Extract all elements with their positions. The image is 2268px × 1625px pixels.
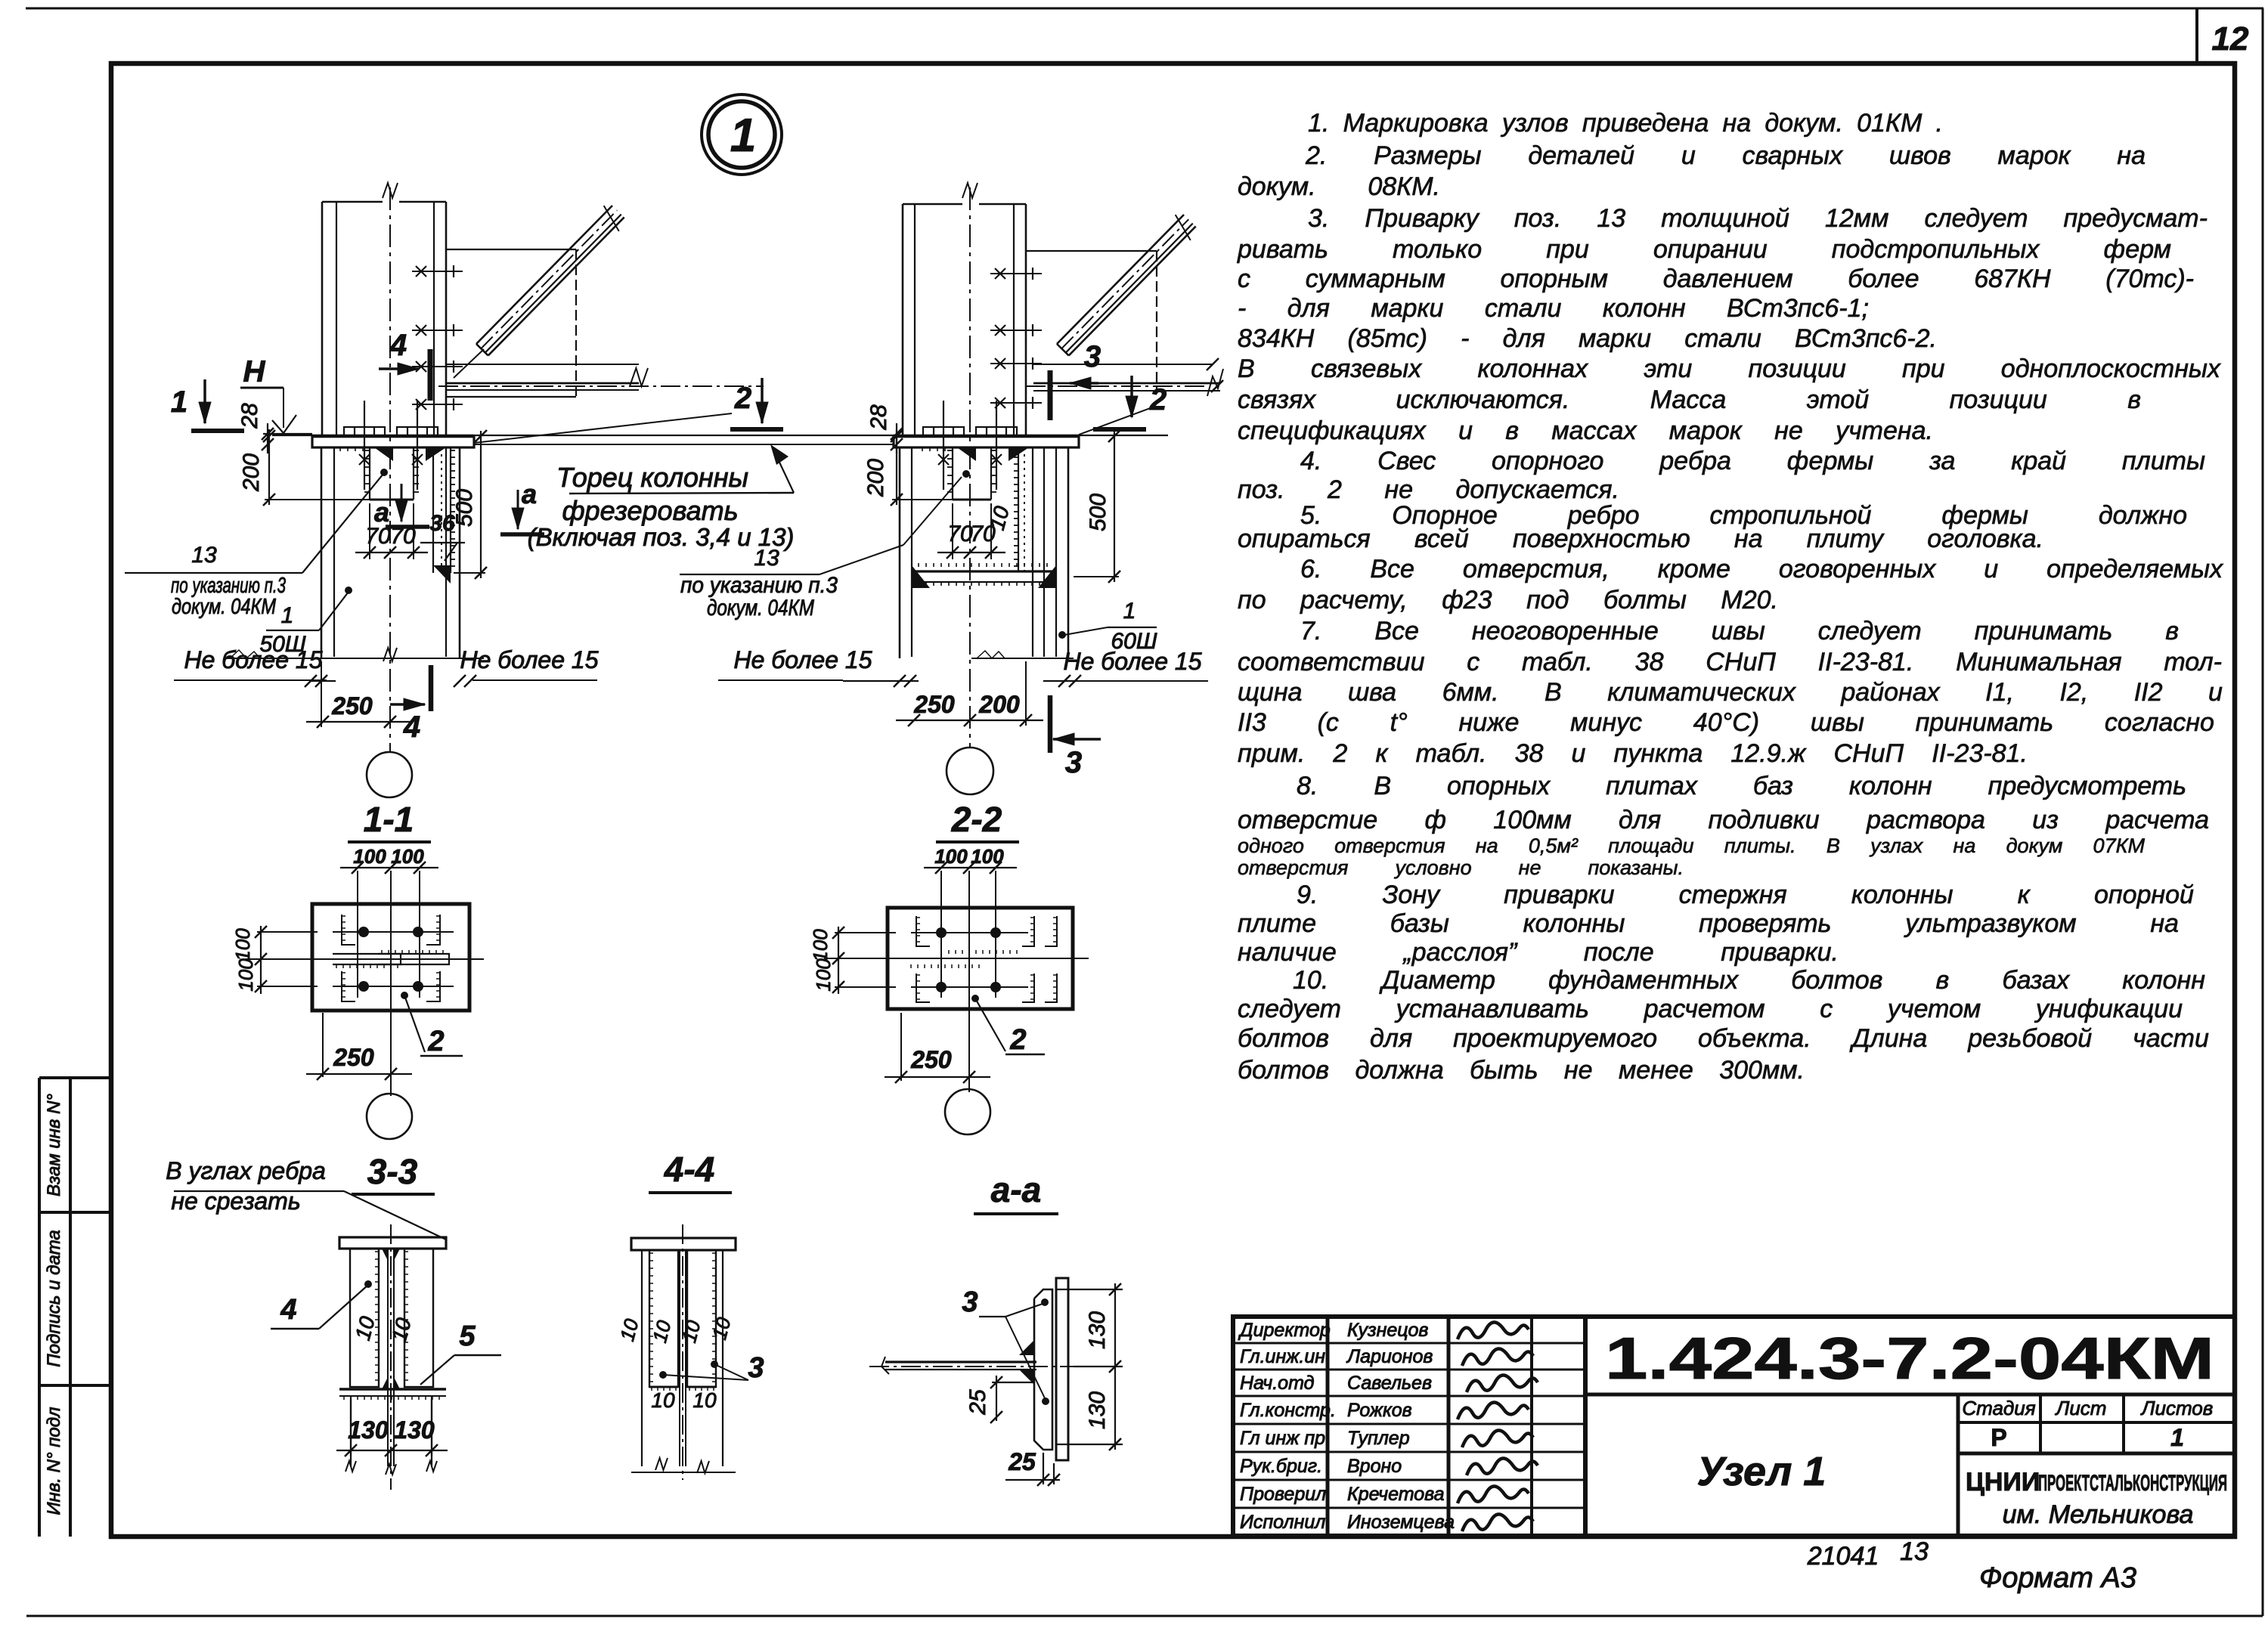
left detail bottom break line	[227, 658, 348, 659]
right detail lower column outer flange	[1055, 447, 1057, 657]
section 2-2 dim 100 100 top	[940, 871, 942, 911]
section 3-3 right rib	[404, 1249, 433, 1387]
svg-text:Гл.инж.ин: Гл.инж.ин	[1240, 1346, 1325, 1367]
svg-text:500: 500	[452, 489, 477, 527]
svg-text:а-а: а-а	[991, 1170, 1041, 1209]
section 2-2 anchor bolts	[936, 927, 947, 938]
svg-text:1: 1	[730, 110, 756, 162]
right detail bolt marks on column flange	[990, 273, 1042, 274]
svg-text:3: 3	[748, 1352, 764, 1384]
sheet outer bottom line	[26, 1615, 2263, 1617]
section a-a dim 130 130 right	[1057, 1289, 1123, 1290]
svg-text:Взам инв N°: Взам инв N°	[44, 1094, 64, 1196]
left detail stiffener slot	[369, 447, 370, 500]
uzel cell divider vertical	[1957, 1394, 1960, 1536]
node marker circle 1	[702, 94, 782, 175]
svg-text:13: 13	[754, 546, 779, 571]
section 3-3 top flange plate	[339, 1237, 446, 1249]
svg-text:28: 28	[866, 404, 891, 431]
title row line 6	[1233, 1479, 1585, 1481]
svg-text:1-1: 1-1	[364, 800, 414, 839]
left detail node circle	[367, 752, 412, 797]
section 3-3 weld triangles at web top	[382, 1249, 388, 1261]
svg-text:Туплер: Туплер	[1347, 1428, 1410, 1449]
svg-text:а: а	[374, 497, 389, 528]
svg-text:200: 200	[978, 691, 1020, 718]
svg-text:13: 13	[1900, 1537, 1929, 1566]
section 3-3 dim 130 130	[350, 1400, 352, 1456]
left detail web weld dotted band	[432, 447, 434, 573]
svg-text:Ларионов: Ларионов	[1346, 1346, 1433, 1367]
left detail dim 500	[480, 431, 482, 578]
section 3-3 left rib	[350, 1249, 379, 1387]
svg-text:В углах ребра: В углах ребра	[166, 1157, 326, 1184]
right detail truss bottom chord	[1033, 364, 1213, 365]
svg-text:100: 100	[809, 929, 832, 962]
svg-text:1: 1	[171, 385, 187, 419]
sheet outer right line	[2262, 8, 2264, 1616]
left detail dim 70 70	[369, 503, 370, 559]
svg-text:Не более 15: Не более 15	[1063, 648, 1201, 675]
section 1-1 dim 100 100 top	[357, 871, 358, 907]
svg-text:фрезеровать: фрезеровать	[562, 495, 738, 526]
svg-text:Не более 15: Не более 15	[460, 646, 598, 673]
svg-text:Инв. N° подл: Инв. N° подл	[44, 1407, 64, 1515]
svg-text:Узел 1: Узел 1	[1697, 1449, 1826, 1494]
svg-text:100: 100	[812, 958, 835, 992]
svg-text:4: 4	[403, 710, 420, 744]
section 2-2 label 2 leader	[971, 995, 979, 1002]
svg-text:10: 10	[615, 1316, 643, 1343]
svg-text:36: 36	[429, 511, 455, 536]
section 4-4 left rib	[649, 1250, 678, 1387]
left detail upper column top cap	[322, 201, 383, 203]
signature squiggles	[1458, 1322, 1529, 1339]
title row line 3	[1233, 1395, 1585, 1397]
section 2-2 centerlines	[824, 958, 1089, 959]
stadia list listov header lines	[1958, 1421, 2235, 1424]
left strip outer line	[38, 1078, 41, 1537]
svg-text:1: 1	[281, 603, 294, 628]
right detail gusset plate	[1026, 250, 1157, 252]
section 2-2 center hatch marks	[948, 950, 950, 954]
left detail dim 200	[268, 429, 270, 505]
section 1-1 weld channel symbols right	[426, 915, 440, 945]
svg-text:100: 100	[234, 958, 257, 992]
left detail lower column right flange	[445, 447, 447, 657]
section a-a flange strip	[1056, 1278, 1068, 1460]
left detail dim 28	[267, 423, 268, 453]
section 1-1 lower circle	[367, 1094, 412, 1139]
right detail lower column left flange	[899, 447, 901, 658]
svg-text:а: а	[522, 478, 537, 509]
torec note leader arrow	[776, 454, 794, 493]
right detail dim 500	[1114, 431, 1115, 582]
left strip cell divider 1	[39, 1211, 111, 1214]
svg-text:130: 130	[1085, 1391, 1110, 1429]
svg-text:2: 2	[1009, 1024, 1026, 1056]
left strip inner divider	[69, 1078, 72, 1537]
svg-text:3: 3	[1065, 746, 1082, 779]
title block vertical line dates-docfield	[1583, 1317, 1588, 1536]
svg-text:Нач.отд: Нач.отд	[1240, 1373, 1315, 1394]
svg-text:Кречетова: Кречетова	[1347, 1484, 1445, 1505]
svg-text:4: 4	[389, 329, 407, 362]
left detail cut trace diagonal to mark 2	[474, 413, 732, 443]
left detail cap plate	[312, 436, 474, 447]
right detail weld fillet triangles under plate	[957, 447, 976, 461]
svg-text:Не более 15: Не более 15	[184, 646, 322, 673]
svg-text:250: 250	[910, 1046, 952, 1073]
right detail bolt axes above plate	[943, 401, 944, 490]
section 1-1 base plate	[312, 904, 469, 1011]
right detail lower column inner flange pair	[1032, 447, 1033, 657]
right detail upper column right flange	[1013, 204, 1015, 436]
left detail upper column left flange	[321, 202, 324, 436]
title block outer border	[1233, 1317, 2235, 1536]
svg-text:130: 130	[394, 1416, 435, 1444]
svg-text:200: 200	[239, 453, 264, 492]
svg-text:70: 70	[970, 522, 996, 546]
left detail upper column right flange	[433, 202, 435, 436]
title row line 7	[1233, 1507, 1585, 1509]
svg-text:ПРОЕКТСТАЛЬКОНСТРУКЦИЯ: ПРОЕКТСТАЛЬКОНСТРУКЦИЯ	[2038, 1471, 2227, 1496]
svg-text:250: 250	[333, 1044, 374, 1071]
svg-text:2: 2	[1149, 383, 1167, 416]
svg-text:130: 130	[1085, 1311, 1110, 1349]
svg-text:100: 100	[353, 845, 386, 868]
right detail plate hatch under top	[922, 447, 923, 451]
svg-text:100: 100	[231, 928, 254, 961]
svg-text:Рожков: Рожков	[1347, 1400, 1412, 1421]
svg-text:10: 10	[708, 1314, 736, 1342]
svg-text:10: 10	[692, 1388, 717, 1412]
svg-text:1.424.3-7.2-04КМ: 1.424.3-7.2-04КМ	[1605, 1325, 2214, 1391]
section 4-4 bottom breaks	[655, 1458, 668, 1470]
section 4-4 webs	[679, 1250, 680, 1466]
svg-text:докум. 04КМ: докум. 04КМ	[172, 595, 277, 619]
left detail section mark 4 bottom	[429, 665, 434, 711]
section 4-4 rib bottoms	[649, 1386, 678, 1388]
svg-text:докум. 04КМ: докум. 04КМ	[707, 596, 814, 621]
svg-text:500: 500	[1086, 494, 1111, 531]
svg-text:10: 10	[387, 1315, 416, 1345]
right detail dim 28	[896, 423, 897, 453]
section 1-1 center hatch marks	[381, 950, 383, 954]
left detail lower column left flange	[321, 447, 323, 658]
right detail truss diagonal member	[1057, 215, 1184, 344]
svg-text:100: 100	[934, 845, 968, 868]
svg-text:3: 3	[1084, 340, 1101, 373]
svg-text:им. Мельникова: им. Мельникова	[2003, 1500, 2194, 1529]
svg-text:100: 100	[391, 845, 424, 868]
svg-text:4-4: 4-4	[664, 1150, 714, 1189]
svg-text:70: 70	[365, 524, 391, 549]
right detail stiffener slot	[952, 447, 953, 500]
svg-text:Подпись и дата: Подпись и дата	[44, 1230, 64, 1367]
svg-text:70: 70	[947, 522, 973, 546]
section 4-4 right rib	[687, 1250, 716, 1387]
svg-text:Не более 15: Не более 15	[733, 646, 872, 673]
section 3-3 flange verticals below	[350, 1396, 352, 1466]
right detail horizontal stiffener	[912, 570, 1056, 572]
right detail column centerline	[969, 187, 971, 748]
left detail diagonal-gusset weld line	[454, 349, 484, 378]
svg-text:Гл инж пр.: Гл инж пр.	[1240, 1428, 1331, 1449]
svg-text:Стадия: Стадия	[1962, 1397, 2035, 1419]
svg-text:Гл.констр.: Гл.констр.	[1240, 1400, 1336, 1421]
torec kolonny line	[272, 435, 1168, 436]
left detail bolt marks on column flange	[412, 271, 463, 272]
svg-text:Кузнецов: Кузнецов	[1347, 1320, 1428, 1341]
left detail weld fillet triangles under plate	[374, 447, 393, 461]
svg-text:Формат А3: Формат А3	[1979, 1562, 2136, 1594]
right detail web weld dotted band	[1018, 447, 1019, 571]
svg-text:2-2: 2-2	[951, 800, 1002, 839]
svg-text:25: 25	[1008, 1448, 1036, 1475]
svg-text:70: 70	[390, 524, 416, 549]
section a-a centerline	[869, 1366, 1119, 1367]
section 1-1 dim 250	[322, 1013, 324, 1077]
sheet number box divider	[2195, 8, 2198, 65]
svg-text:Директор: Директор	[1238, 1320, 1331, 1341]
svg-text:ЦНИИ: ЦНИИ	[1966, 1468, 2040, 1497]
title row line 1	[1233, 1342, 1585, 1345]
title block vertical line names-signatures	[1447, 1317, 1451, 1536]
svg-text:3-3: 3-3	[367, 1152, 418, 1191]
svg-text:10: 10	[651, 1388, 675, 1412]
svg-text:13: 13	[191, 543, 217, 568]
section 4-4 label 3 leaders	[659, 1371, 667, 1379]
section 2-2 lower circle	[945, 1089, 990, 1134]
section 2-2 dim 250	[900, 1013, 902, 1081]
svg-text:130: 130	[348, 1416, 389, 1444]
right detail node circle	[947, 747, 993, 794]
left detail plate hatch under top	[339, 447, 341, 451]
title row line 4	[1233, 1423, 1585, 1425]
svg-text:100: 100	[971, 845, 1004, 868]
svg-text:Исполнил: Исполнил	[1240, 1512, 1325, 1533]
left detail bolt axes above plate	[364, 401, 365, 490]
svg-text:1: 1	[1123, 599, 1136, 624]
svg-text:4: 4	[280, 1294, 296, 1326]
title row line 5	[1233, 1451, 1585, 1453]
sheet outer top line	[26, 8, 2263, 10]
section 1-1 label 2 leader	[401, 992, 408, 999]
svg-text:10: 10	[648, 1317, 676, 1345]
left detail gusset plate	[446, 249, 576, 250]
svg-text:Лист: Лист	[2055, 1397, 2107, 1419]
left strip cell divider 2	[39, 1384, 111, 1387]
left detail chord break mark	[630, 368, 648, 386]
svg-text:Иноземцева: Иноземцева	[1347, 1512, 1455, 1533]
right detail upper column top cap	[903, 203, 962, 206]
left detail truss bottom chord	[446, 364, 639, 365]
torec line second between plates	[474, 444, 894, 445]
section 4-4 top flange plate	[631, 1238, 736, 1250]
svg-text:Проверил: Проверил	[1240, 1484, 1326, 1505]
right detail dim 200	[896, 429, 897, 505]
right detail section mark 3 bottom	[1048, 695, 1053, 753]
svg-text:Савельев: Савельев	[1347, 1373, 1432, 1394]
section 4-4 outer flange lines	[641, 1250, 643, 1466]
title block vertical line signatures-dates	[1530, 1317, 1533, 1536]
section 1-1 centerlines	[246, 958, 484, 960]
svg-text:Вроно: Вроно	[1347, 1456, 1402, 1477]
section 1-1 anchor bolts	[358, 927, 369, 937]
section a-a dim 25 upper	[996, 1376, 997, 1421]
svg-text:Рук.бриг.: Рук.бриг.	[1240, 1456, 1322, 1477]
right detail upper column left flange	[902, 204, 904, 436]
section a-a rib plate vertical	[1034, 1289, 1052, 1450]
doc number cell divider	[1585, 1393, 2235, 1397]
section 2-2 weld channel symbols right (double)	[1022, 916, 1034, 946]
section 1-1 dims 100 100 left	[260, 926, 262, 994]
section 2-2 dims 100 100 left	[838, 927, 839, 994]
left detail centerline top break	[383, 183, 398, 198]
section a-a dim 25 lower	[1043, 1453, 1044, 1484]
svg-text:3: 3	[962, 1286, 978, 1318]
svg-text:5: 5	[459, 1320, 476, 1352]
section 1-1 weld channel symbols left	[342, 915, 355, 945]
svg-text:2: 2	[427, 1026, 444, 1057]
section 3-3 centerline	[390, 1224, 392, 1490]
svg-text:12: 12	[2212, 20, 2249, 57]
svg-text:28: 28	[237, 403, 262, 429]
left detail web weld end triangle	[433, 565, 451, 583]
svg-text:10: 10	[677, 1317, 705, 1345]
title row line 2	[1233, 1369, 1585, 1371]
section 2-2 weld channel symbols left	[916, 916, 930, 946]
section a-a web plate horizontal	[885, 1360, 1036, 1363]
section a-a weld triangles	[1019, 1340, 1034, 1355]
svg-text:по указанию п.3: по указанию п.3	[680, 573, 838, 598]
right detail dim 70 70	[952, 503, 953, 559]
section 2-2 base plate	[888, 908, 1073, 1009]
left detail truss diagonal member	[476, 206, 612, 344]
section 3-3 bottom band	[339, 1388, 446, 1390]
svg-text:10: 10	[351, 1314, 380, 1343]
right detail bottom break line	[971, 658, 1074, 659]
section 3-3 web	[387, 1249, 389, 1466]
section 3-3 bottom breaks	[345, 1461, 356, 1472]
right detail cap plate	[894, 436, 1079, 447]
svg-text:200: 200	[863, 459, 888, 497]
svg-text:25: 25	[965, 1389, 990, 1416]
svg-text:1: 1	[2170, 1424, 2184, 1451]
left detail column centerline	[389, 187, 391, 752]
svg-text:Р: Р	[1991, 1424, 2006, 1451]
title block vertical line roles-names	[1326, 1317, 1330, 1536]
svg-text:Торец колонны: Торец колонны	[556, 462, 748, 493]
section 4-4 centerline	[682, 1224, 683, 1480]
svg-text:Н: Н	[243, 355, 266, 388]
svg-text:21041: 21041	[1807, 1542, 1879, 1571]
svg-text:250: 250	[331, 692, 373, 720]
svg-text:2: 2	[734, 382, 751, 415]
left detail slot leader dot	[380, 469, 388, 476]
right detail cut trace diagonal to mark 2	[1079, 407, 1152, 435]
svg-text:Листов: Листов	[2140, 1397, 2214, 1419]
